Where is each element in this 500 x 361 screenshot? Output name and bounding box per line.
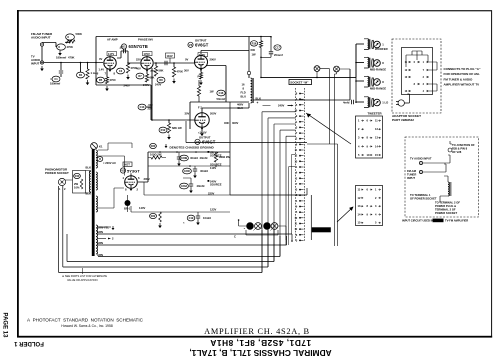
phono motor socket symbol [58, 178, 65, 185]
feedback cap ref C13 .002 22K [138, 104, 146, 110]
svg-text:TERMINAL 2 OF: TERMINAL 2 OF [435, 208, 456, 212]
svg-text:FM TUNER & AUDIO: FM TUNER & AUDIO [444, 77, 474, 81]
svg-text:1.4V: 1.4V [99, 68, 105, 72]
svg-text:180Ω 2W: 180Ω 2W [219, 155, 231, 159]
arrow socket M to tweeter box [306, 113, 351, 144]
wire top bus of amp section [96, 37, 271, 63]
svg-text:4700: 4700 [110, 78, 116, 82]
svg-text:SOCKET “M”: SOCKET “M” [290, 80, 309, 84]
svg-text:GRN-YEL: GRN-YEL [97, 226, 109, 230]
svg-text:50mmf: 50mmf [217, 97, 226, 101]
capacitor ref C1A [52, 76, 60, 82]
choke coil right box [448, 182, 449, 196]
svg-text:220V: 220V [208, 192, 214, 196]
svg-text:GRN: GRN [97, 241, 103, 245]
svg-text:TWEETER: TWEETER [368, 112, 383, 116]
svg-text:R5: R5 [99, 78, 103, 82]
240V source label [208, 180, 210, 182]
svg-text:R: R [99, 157, 101, 161]
label box SOCKET M [289, 80, 312, 85]
ref R40 in interlock box [74, 173, 81, 178]
svg-text:FLD: FLD [241, 91, 246, 95]
cathode resistor V1A [106, 69, 108, 77]
T1 primary winding [89, 171, 90, 192]
ref R12 [159, 127, 167, 133]
input circuit dashed box [405, 137, 479, 217]
capacitor C1 series [60, 63, 62, 71]
svg-text:C20C: C20C [184, 169, 191, 173]
harness bus line 1 [98, 234, 292, 241]
svg-text:POWER SOCKET: POWER SOCKET [435, 211, 457, 215]
svg-text:40mfd: 40mfd [200, 156, 208, 160]
svg-text:CONNECTS TO PLUG “A”: CONNECTS TO PLUG “A” [444, 67, 481, 71]
plug P1 connector circle [314, 66, 320, 72]
svg-text:C20A: C20A [181, 184, 188, 188]
adaptor socket inner top loop [406, 55, 428, 67]
wire stub to parts note [81, 268, 83, 274]
filter cap C20C 40mfd [183, 168, 192, 174]
tube V3 6V6GT [195, 56, 208, 69]
V3 screen wire [206, 66, 226, 103]
svg-text:R7: R7 [138, 74, 142, 78]
label box PH-PLUG inverse [312, 227, 331, 232]
plate load resistor R8 56K [155, 63, 157, 66]
svg-text:30V: 30V [185, 112, 190, 116]
ref R20 [150, 143, 157, 148]
wire B+ vertical rail [248, 37, 250, 109]
svg-text:INPUT: INPUT [31, 62, 40, 66]
input jack J1 [40, 43, 43, 46]
tube ref V1 6SN7GTB [121, 44, 126, 49]
svg-text:.002: .002 [148, 103, 154, 107]
svg-text:119V: 119V [167, 54, 173, 58]
svg-text:16: 16 [242, 83, 245, 87]
svg-text:PAGE 13: PAGE 13 [2, 313, 8, 339]
svg-text:123V: 123V [210, 208, 216, 212]
svg-text:10mfd: 10mfd [203, 216, 211, 220]
svg-text:F 2: F 2 [198, 106, 202, 110]
wire main input line [44, 62, 103, 64]
svg-text:2W: 2W [74, 182, 78, 186]
svg-text:V1: V1 [122, 45, 126, 49]
volume control R1 470K [57, 44, 66, 50]
svg-text:⊕ SEE PARTS LIST FOR ALTERNATE: ⊕ SEE PARTS LIST FOR ALTERNATE [62, 274, 107, 278]
page top border [17, 10, 492, 11]
svg-text:466V: 466V [237, 103, 243, 107]
svg-text:R4: R4 [79, 73, 83, 77]
svg-text:≈ 200V AC: ≈ 200V AC [103, 161, 116, 165]
B+ filter rail [148, 151, 230, 153]
svg-text:21DX19: 21DX19 [434, 220, 443, 223]
ref R22 [149, 213, 156, 218]
resistor 180 ohm 2W [214, 152, 217, 162]
triode V1A AF amp [104, 57, 116, 69]
wire stub C13 [146, 106, 152, 108]
svg-text:BLU: BLU [238, 106, 244, 110]
svg-text:240V: 240V [155, 83, 161, 87]
arrow marks at pilot lamps [254, 228, 256, 230]
triode V1B phase inverter [141, 57, 153, 69]
svg-text:AF AMP: AF AMP [107, 38, 118, 42]
pilot lamps I1 I2 I3 I4 [247, 223, 254, 230]
coupling capacitor C3 .02 [117, 51, 128, 58]
harness bus line 3 [98, 236, 280, 257]
svg-text:10%: 10% [74, 186, 80, 190]
svg-text:BLK: BLK [86, 166, 92, 170]
svg-text:C1: C1 [54, 77, 58, 81]
svg-text:PHASE INV: PHASE INV [138, 38, 153, 42]
harness bus line 5 [63, 186, 268, 267]
svg-text:FOR OPERATION OF AM-: FOR OPERATION OF AM- [444, 72, 480, 76]
socket M pins [299, 93, 301, 95]
svg-text:C3: C3 [119, 69, 123, 73]
source label 121V [208, 151, 210, 153]
svg-text:300V: 300V [232, 121, 238, 125]
input jack J2 [40, 61, 43, 64]
T1 secondary windings [96, 150, 97, 168]
svg-text:WOOFER: WOOFER [375, 47, 388, 51]
wire T2 secondary to speaker bus [254, 44, 357, 100]
svg-text:110V: 110V [210, 166, 216, 170]
V3 plate wire to output transformer [201, 51, 249, 53]
svg-text:40V: 40V [136, 67, 141, 71]
rotated chassis title ADMIRAL CHASSIS [189, 338, 331, 358]
svg-text:100Ω 2W: 100Ω 2W [150, 153, 162, 157]
page right border [491, 10, 492, 336]
ground below volume control [59, 51, 61, 54]
output transformer T2 primary [251, 78, 253, 103]
ref R5 cathode bypass [97, 77, 105, 83]
svg-text:VALUE OR APPLICATION: VALUE OR APPLICATION [67, 278, 98, 282]
svg-text:+: + [257, 101, 259, 105]
svg-text:40mfd: 40mfd [190, 156, 198, 160]
wire 123V row [131, 206, 230, 212]
tube ref V3 6V6GT [188, 42, 193, 47]
wire vertical pair right of amp [307, 69, 338, 246]
speaker SP1 woofer with transformer [356, 43, 364, 45]
svg-text:TV AUDIO INPUT: TV AUDIO INPUT [410, 157, 432, 161]
page bottom rule [17, 336, 492, 338]
svg-text:6V6GT: 6V6GT [195, 43, 209, 48]
svg-text:INPUT: INPUT [407, 176, 415, 180]
denotes chassis ground note [165, 144, 167, 146]
svg-text:V3: V3 [189, 43, 193, 47]
ref circle R7 [136, 73, 144, 79]
wire 110V source row [148, 165, 230, 167]
resistor ref R4 [77, 72, 85, 78]
wire vertical at pilot box left [310, 195, 312, 240]
harness bus line 4 [67, 230, 274, 262]
harness bus line 6 [59, 186, 262, 273]
svg-text:MID-RANGE: MID-RANGE [370, 67, 386, 71]
wire J1 to J2 node [41, 46, 43, 61]
page left border bar [17, 10, 19, 336]
speaker SP4 tweeter with transformer [356, 101, 364, 103]
wire right section box [230, 102, 307, 195]
svg-text:200V: 200V [210, 58, 216, 62]
svg-text:R8: R8 [159, 78, 163, 82]
svg-text:C13: C13 [140, 105, 145, 109]
speaker SP3 mid-range with transformer [356, 80, 364, 82]
svg-text:HOT: HOT [124, 163, 130, 167]
wire V5 output 300V [138, 152, 148, 182]
wire feedback box [190, 102, 249, 129]
svg-text:470K: 470K [67, 45, 73, 49]
wire output stage bottom line [186, 121, 307, 143]
arrow to tweeter box 2 [337, 207, 353, 222]
wire phono socket to transformer [65, 171, 91, 194]
svg-text:FM-AM: FM-AM [407, 169, 417, 173]
svg-text:117V: 117V [108, 52, 114, 56]
svg-text:500K: 500K [76, 32, 82, 36]
svg-text:20mmf: 20mmf [274, 53, 283, 57]
tube V4 6V6GT [195, 113, 209, 127]
boxed label HOT [123, 162, 132, 166]
adaptor socket outer rectangle [402, 48, 433, 95]
svg-text:Howard W. Sams & Co., Inc. 195: Howard W. Sams & Co., Inc. 1958 [61, 324, 113, 328]
V3 cathode network [200, 70, 202, 73]
pilot cluster wires [239, 220, 286, 240]
svg-text:TUNER: TUNER [407, 173, 416, 177]
svg-text:1W: 1W [210, 90, 214, 94]
boxed label 117V at V3 [198, 53, 208, 57]
resistor R41 ballast [125, 200, 131, 206]
svg-text:180mmf: 180mmf [56, 56, 66, 60]
svg-text:INPUT CIRCUIT USED IN: INPUT CIRCUIT USED IN [402, 219, 433, 223]
rotated page label PAGE 13 [2, 313, 8, 339]
svg-text:C19: C19 [189, 216, 194, 220]
svg-text:65V: 65V [151, 69, 156, 73]
wire V1B plate to V3 grid [154, 62, 194, 64]
rectifier tube V5 [125, 176, 138, 189]
svg-text:AUDIO INPUT: AUDIO INPUT [31, 36, 51, 40]
V4 cathode [201, 128, 203, 132]
svg-text:►: ► [244, 227, 246, 230]
svg-text:POWER PLUG &: POWER PLUG & [435, 204, 456, 208]
svg-text:C16: C16 [219, 91, 224, 95]
svg-text:0V: 0V [99, 57, 102, 61]
jack TV audio right box [419, 161, 422, 164]
svg-text:C20B: C20B [181, 156, 188, 160]
wire speaker bus vertical [355, 44, 357, 103]
svg-text:OF POWER SOCKET: OF POWER SOCKET [410, 197, 437, 201]
svg-text:470K: 470K [68, 56, 74, 60]
svg-text:TO TERMINAL 1: TO TERMINAL 1 [410, 193, 431, 197]
svg-text:BLU: BLU [241, 95, 247, 99]
speaker SP2 mid-range with transformer [356, 62, 364, 64]
svg-text:0V: 0V [185, 58, 188, 62]
resistor R3 under tone pot [66, 40, 75, 43]
coupling capacitor C5 with boxed label [166, 53, 175, 58]
svg-text:300V: 300V [144, 177, 150, 181]
svg-text:C17: C17 [275, 45, 280, 49]
power transformer T1 core [92, 146, 95, 256]
svg-text:R22: R22 [151, 214, 156, 218]
svg-text:PART #98EB32: PART #98EB32 [392, 118, 414, 122]
tube ref V4 6V6GT lower [195, 139, 200, 144]
tube ref V5 5Y3GT [120, 168, 125, 173]
tweeter connection box 1 [356, 116, 383, 158]
fuse M1 interlock [91, 143, 98, 150]
svg-text:TO TERMINAL 2 OF: TO TERMINAL 2 OF [435, 201, 460, 205]
svg-text:ADMIRAL CHASSIS 17L1, B, 17AL1: ADMIRAL CHASSIS 17L1, B, 17AL1, [189, 348, 331, 358]
svg-text:180mmf: 180mmf [50, 82, 60, 86]
wire T1 HV to V5 [98, 143, 132, 208]
svg-text:POWER SOCKET: POWER SOCKET [45, 171, 69, 175]
svg-text:200V: 200V [210, 112, 216, 116]
svg-text:5Y3GT: 5Y3GT [127, 168, 140, 173]
resistor R5 1 meg [87, 63, 89, 70]
wire stubs from socket to left [263, 105, 271, 107]
svg-text:TV-FM AMPLIFIER: TV-FM AMPLIFIER [445, 219, 468, 223]
interlock box with thermal resistor [73, 171, 86, 194]
svg-text:22V: 22V [136, 58, 141, 62]
V4 plate wire [202, 108, 249, 111]
tone control R2 500K [66, 34, 75, 40]
svg-text:68K 1W: 68K 1W [172, 126, 182, 130]
svg-text:AMPLIFIER CH. 4S2A, B: AMPLIFIER CH. 4S2A, B [204, 327, 310, 336]
svg-text:SOURCE: SOURCE [210, 183, 222, 187]
tweeter connection box 2 [356, 186, 383, 226]
chassis ground flag at T2 [247, 71, 250, 74]
svg-text:6SN7GTB: 6SN7GTB [129, 44, 148, 49]
harness stub arrow 2 [98, 238, 106, 240]
junction dot at V1 grid [95, 62, 97, 64]
jack FM-AM right box [419, 170, 422, 173]
harness bus line 2 [98, 236, 287, 245]
svg-text:TO JUNCTION OF: TO JUNCTION OF [452, 143, 475, 147]
resistor 100 ohm 2W horizontal [151, 156, 162, 159]
svg-text:1 LO: 1 LO [382, 101, 388, 105]
svg-text:R20: R20 [151, 144, 156, 148]
adaptor socket jumper wires [412, 51, 437, 91]
svg-text:FOLDER 1: FOLDER 1 [14, 340, 44, 346]
cathode network V1B [146, 70, 148, 74]
plug P2 connector circle [334, 66, 340, 72]
filter cap C20A 40mfd [180, 183, 189, 189]
svg-text:1 meg: 1 meg [91, 71, 99, 75]
V4 grid feed from phase inverter [152, 68, 195, 120]
svg-text:DENOTES CHASSIS GROUND: DENOTES CHASSIS GROUND [170, 146, 215, 150]
boxed label 170V at V1B [143, 52, 153, 56]
svg-text:GRN: GRN [97, 230, 103, 234]
ref C3 [117, 68, 125, 74]
svg-text:170V: 170V [144, 52, 150, 56]
svg-text:R28 & PIN 8: R28 & PIN 8 [452, 147, 468, 151]
resistor R16 600 ohm 1W [260, 37, 262, 41]
svg-text:470K: 470K [177, 70, 183, 74]
svg-text:56K: 56K [159, 69, 164, 73]
wire feedback loop box [96, 63, 151, 121]
svg-text:40mfd: 40mfd [197, 184, 205, 188]
svg-text:R16: R16 [252, 41, 257, 45]
grid resistor R6 470K [128, 51, 140, 63]
ref R30 [97, 157, 103, 162]
svg-text:.02: .02 [119, 46, 123, 50]
wire J1 branch to tone pot [42, 41, 70, 48]
svg-text:17D1, 4S2B, 8F1, 8H1A: 17D1, 4S2B, 8F1, 8H1A [210, 338, 311, 348]
svg-text:AMPLIFIER WITHOUT TV: AMPLIFIER WITHOUT TV [444, 83, 480, 87]
svg-text:C: C [234, 235, 236, 239]
svg-text:MID-RANGE: MID-RANGE [370, 86, 386, 90]
rotated folder label FOLDER 1 [14, 340, 44, 346]
svg-text:240V: 240V [278, 104, 284, 108]
vertical riser wires from socket pins to harness buses [262, 112, 296, 273]
svg-text:R12: R12 [161, 128, 166, 132]
adaptor AC plug [398, 100, 404, 106]
adaptor socket dashed box [392, 39, 441, 113]
svg-text:40mfd: 40mfd [200, 169, 208, 173]
wire 240V source row [144, 182, 230, 195]
svg-text:30V: 30V [184, 69, 189, 73]
svg-text:A PHOTOFACT STANDARD NOTATI: A PHOTOFACT STANDARD NOTATION SCHEMATIC [27, 318, 144, 323]
svg-text:R40: R40 [75, 174, 80, 178]
grid resistor V3 470K [173, 63, 175, 67]
svg-text:140V: 140V [139, 206, 145, 210]
svg-text:OF V28: OF V28 [452, 150, 462, 154]
svg-text:600: 600 [251, 48, 256, 52]
socket M dashed strip [296, 88, 305, 242]
ref C16 50mmf [197, 86, 200, 96]
svg-text:6V6GT: 6V6GT [202, 140, 216, 145]
svg-text:V4: V4 [196, 140, 200, 144]
capacitor C17 20mmf [270, 37, 272, 52]
svg-text:PH-PLUG: PH-PLUG [313, 229, 329, 233]
boxed label 117V at V1A plate [107, 52, 117, 56]
filter cap C20B 40mfd [180, 155, 189, 161]
filter cap C19 10mfd [187, 215, 195, 221]
svg-text:K1: K1 [99, 145, 103, 149]
svg-text:4mfd: 4mfd [343, 101, 350, 105]
V4 grid resistor 68K [167, 123, 170, 133]
svg-text:1W: 1W [252, 53, 256, 57]
ref R8 and 240V label [157, 77, 165, 83]
